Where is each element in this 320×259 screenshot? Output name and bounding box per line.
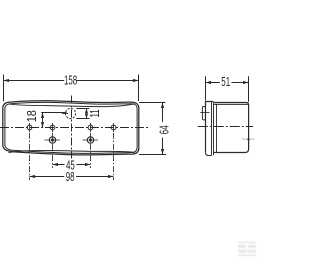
svg-text:98: 98 [66,170,75,184]
svg-text:158: 158 [64,74,77,88]
svg-text:64: 64 [158,125,172,134]
svg-text:18: 18 [24,110,39,122]
svg-text:11: 11 [88,109,102,117]
svg-text:51: 51 [221,75,230,89]
